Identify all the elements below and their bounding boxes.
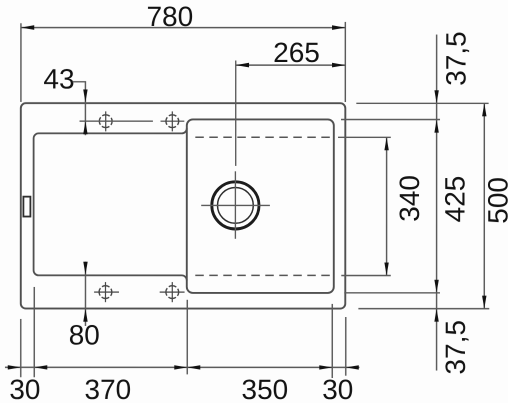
dim 425 arrow down bbox=[434, 280, 438, 293]
right extension line y=103.3 bbox=[356, 102, 488, 104]
svg-text:37,5: 37,5 bbox=[440, 320, 471, 375]
bottom extension line x=34.3 bbox=[33, 287, 35, 377]
dim 780/265 extension line right bbox=[344, 22, 346, 102]
bottom extension line x=187.3 bbox=[186, 300, 188, 375]
dim 340 line bbox=[386, 137, 388, 275]
right extension line y=137.3 bbox=[338, 136, 391, 138]
dim 780 line bbox=[21, 27, 345, 29]
svg-text:370: 370 bbox=[84, 374, 131, 403]
svg-text:500: 500 bbox=[482, 177, 508, 224]
bottom extension line x=345.8 bbox=[345, 317, 347, 376]
svg-text:37,5: 37,5 bbox=[441, 31, 472, 86]
dim 43 leader bbox=[73, 82, 86, 135]
dim 80 line bbox=[84, 262, 86, 326]
drain outer circle bbox=[212, 182, 259, 229]
dim 370 arrow right bbox=[174, 365, 187, 369]
svg-text:30: 30 bbox=[322, 374, 353, 403]
bottom extension line x=20.8 bbox=[20, 319, 22, 377]
bowl outline bbox=[187, 119, 334, 293]
dim 340 arrow up bbox=[384, 137, 388, 150]
dim 370 arrow left bbox=[34, 365, 47, 369]
svg-text:425: 425 bbox=[439, 176, 470, 223]
right extension line y=308.6 bbox=[358, 308, 489, 310]
svg-text:43: 43 bbox=[43, 64, 74, 95]
dim 500 arrow down bbox=[482, 296, 486, 309]
bowl dashed waterline bottom bbox=[195, 274, 330, 276]
svg-text:30: 30 bbox=[9, 374, 40, 403]
bottom arrow outside-left bbox=[8, 365, 21, 369]
tap hole bottom-right bbox=[160, 282, 185, 302]
dim 265 arrow right bbox=[332, 63, 345, 68]
right extension line y=275.5 bbox=[341, 275, 391, 277]
tap hole top-left bbox=[99, 111, 112, 131]
tap hole top-right bbox=[161, 111, 185, 131]
right extension line y=292.8 bbox=[344, 292, 440, 294]
dim 37,5 top arrow down bbox=[434, 90, 438, 103]
drain inner circle bbox=[217, 187, 253, 223]
dim 425 / 37,5 line bbox=[436, 35, 438, 371]
overflow slot bbox=[23, 197, 30, 217]
dim 350 arrow left bbox=[187, 365, 200, 369]
dim 780 arrow right bbox=[332, 25, 345, 30]
svg-text:780: 780 bbox=[146, 1, 193, 32]
bottom dimension line bbox=[5, 366, 360, 368]
dim 265 line bbox=[236, 64, 346, 66]
right extension line y=119.5 bbox=[341, 119, 440, 121]
dim 340 arrow down bbox=[384, 263, 388, 276]
dim 43 arrow down bbox=[83, 89, 87, 102]
dim 43 arrow up bbox=[83, 121, 87, 134]
dim 780 arrow left bbox=[21, 25, 34, 30]
sink outer outline bbox=[21, 103, 346, 308]
dim 425 arrow up bbox=[434, 120, 438, 133]
svg-text:350: 350 bbox=[241, 374, 288, 403]
dim 500 arrow up bbox=[482, 103, 486, 116]
bottom arrow outside-right bbox=[346, 365, 359, 369]
drain centerline horizontal bbox=[201, 204, 270, 206]
drainboard inner outline bbox=[34, 128, 187, 280]
svg-text:80: 80 bbox=[69, 319, 100, 350]
dim 80 arrow up bbox=[83, 309, 87, 322]
dim 780 extension line left bbox=[20, 23, 22, 102]
dim 80 arrow down bbox=[83, 262, 87, 275]
dim 350 arrow right bbox=[319, 365, 332, 369]
dim 265 arrow left bbox=[236, 63, 249, 68]
svg-text:340: 340 bbox=[394, 175, 425, 222]
dim 265 extension line left bbox=[235, 60, 237, 165]
bowl dashed waterline top bbox=[195, 136, 331, 138]
bottom extension line x=332.3 bbox=[331, 304, 333, 378]
dim 500 line bbox=[483, 103, 485, 308]
dim 37,5 bottom arrow up bbox=[434, 309, 438, 322]
drain centerline vertical bbox=[234, 171, 236, 239]
tap hole bottom-left bbox=[94, 282, 119, 302]
svg-text:265: 265 bbox=[273, 37, 320, 68]
tap holes top centerline bbox=[80, 120, 153, 122]
